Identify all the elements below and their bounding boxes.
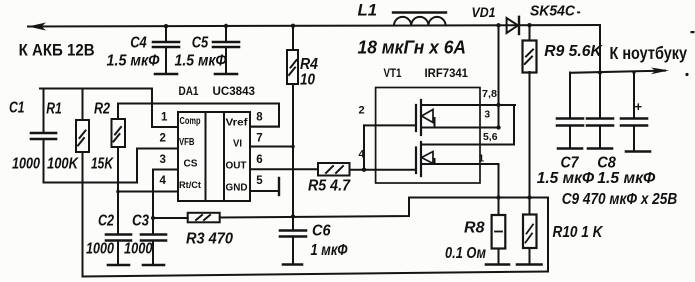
svg-text:1.5 мкФ: 1.5 мкФ <box>107 53 160 70</box>
svg-text:5,6: 5,6 <box>483 132 498 143</box>
svg-text:1 мкФ: 1 мкФ <box>311 242 349 259</box>
svg-text:IRF7341: IRF7341 <box>425 66 469 80</box>
svg-text:1.5 мкФ: 1.5 мкФ <box>537 170 595 187</box>
svg-text:OUT: OUT <box>226 161 247 172</box>
svg-text:1: 1 <box>479 154 485 165</box>
svg-text:Vref: Vref <box>226 118 249 129</box>
svg-text:1000: 1000 <box>124 241 153 258</box>
svg-text:Comp: Comp <box>180 116 201 127</box>
svg-text:R2: R2 <box>94 101 110 118</box>
svg-text:10: 10 <box>300 72 315 89</box>
svg-text:C7: C7 <box>561 155 580 172</box>
svg-text:8: 8 <box>256 112 263 124</box>
svg-text:R10 1 K: R10 1 K <box>553 224 605 241</box>
svg-text:R1: R1 <box>46 101 62 118</box>
svg-text:R4: R4 <box>300 56 318 73</box>
svg-text:R8: R8 <box>464 220 485 237</box>
svg-text:1.5 мкФ: 1.5 мкФ <box>597 170 656 187</box>
svg-text:2: 2 <box>359 105 365 117</box>
svg-text:C1: C1 <box>9 100 25 117</box>
svg-text:100K: 100K <box>47 156 80 173</box>
svg-text:C4: C4 <box>130 34 147 51</box>
svg-text:6: 6 <box>256 154 262 166</box>
svg-text:3: 3 <box>160 154 166 166</box>
svg-text:C5: C5 <box>192 34 209 51</box>
svg-text:VT1: VT1 <box>384 66 402 80</box>
svg-text:1.5 мкФ: 1.5 мкФ <box>175 53 227 70</box>
svg-text:5: 5 <box>256 175 263 187</box>
svg-text:R5 4.7: R5 4.7 <box>308 178 351 195</box>
svg-text:L1: L1 <box>358 1 378 20</box>
svg-text:3: 3 <box>485 110 491 121</box>
svg-text:R9 5.6K: R9 5.6K <box>544 43 603 60</box>
svg-text:C8: C8 <box>597 155 616 172</box>
svg-text:C3: C3 <box>132 213 149 230</box>
svg-text:R3 470: R3 470 <box>186 231 233 248</box>
svg-text:VI: VI <box>233 139 242 150</box>
svg-text:C9 470 мкФ х 25В: C9 470 мкФ х 25В <box>562 191 678 208</box>
svg-text:C2: C2 <box>98 213 114 230</box>
svg-text:UC3843: UC3843 <box>213 84 256 98</box>
svg-text:15K: 15K <box>91 156 114 173</box>
svg-text:1000: 1000 <box>86 241 114 258</box>
svg-text:7,8: 7,8 <box>482 89 497 100</box>
svg-text:К ноутбуку: К ноутбуку <box>610 43 688 63</box>
svg-text:VD1: VD1 <box>472 5 496 20</box>
svg-text:1000: 1000 <box>12 156 40 173</box>
svg-text:C6: C6 <box>312 223 331 240</box>
svg-text:1: 1 <box>161 112 168 124</box>
svg-text:7: 7 <box>256 133 262 145</box>
svg-text:0.1 Ом: 0.1 Ом <box>445 245 486 262</box>
svg-text:18 мкГн х 6А: 18 мкГн х 6А <box>358 37 467 57</box>
svg-text:CS: CS <box>184 159 198 170</box>
svg-text:Rt/Ct: Rt/Ct <box>179 180 202 191</box>
svg-text:4: 4 <box>160 175 167 187</box>
svg-text:К АКБ 12В: К АКБ 12В <box>19 40 95 59</box>
svg-text:SK54C: SK54C <box>530 4 576 20</box>
svg-text:GND: GND <box>226 183 248 194</box>
svg-text:4: 4 <box>359 149 366 161</box>
svg-text:+: + <box>635 99 643 114</box>
svg-text:2: 2 <box>160 133 166 145</box>
svg-text:VFB: VFB <box>179 137 195 148</box>
svg-text:DA1: DA1 <box>179 84 199 98</box>
